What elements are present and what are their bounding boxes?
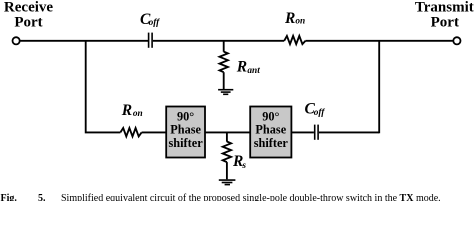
- receive port label: [4, 0, 53, 31]
- svg-text:Phase: Phase: [170, 123, 201, 137]
- svg-text:90°: 90°: [262, 110, 279, 124]
- wire: [205, 131, 250, 133]
- svg-text:Transmit: Transmit: [415, 0, 474, 15]
- svg-text:Simplified equivalent circuit: Simplified equivalent circuit of the pro…: [61, 193, 441, 201]
- label C_off (top): [140, 11, 160, 28]
- svg-text:Phase: Phase: [255, 123, 286, 137]
- capacitor C2 C_off (bottom): [315, 125, 318, 140]
- svg-text:on: on: [295, 17, 305, 27]
- wire: [319, 131, 379, 133]
- figure caption: [1, 193, 441, 204]
- resistor R_s (vertical): [223, 132, 231, 179]
- wire: [306, 40, 453, 42]
- svg-text:s: s: [241, 161, 246, 171]
- svg-text:off: off: [314, 108, 326, 118]
- wire: [153, 40, 284, 42]
- phase shifter block PS1: [166, 107, 205, 158]
- wire: [142, 131, 167, 133]
- svg-text:R: R: [284, 10, 295, 27]
- label R_on (bottom): [121, 102, 143, 119]
- svg-text:shifter: shifter: [169, 136, 204, 150]
- ground (R_ant): [218, 90, 233, 95]
- resistor R_ant (vertical): [220, 41, 228, 89]
- resistor R1 R_on (top): [284, 36, 305, 44]
- ground (R_s): [219, 180, 236, 185]
- phase shifter block PS2: [250, 107, 291, 158]
- label R_on (top): [284, 10, 305, 27]
- phase shifter PS2 text: [254, 110, 289, 151]
- wire: [291, 131, 314, 133]
- transmit port label: [415, 0, 474, 31]
- wire: [20, 40, 148, 42]
- svg-text:off: off: [149, 18, 161, 28]
- label R_s: [232, 153, 246, 171]
- svg-text:Port: Port: [431, 15, 459, 31]
- capacitor C1 C_off (top): [149, 33, 153, 48]
- svg-text:5.: 5.: [38, 193, 46, 201]
- label C_off (bottom): [305, 100, 326, 117]
- port terminal P2 (transmit): [453, 37, 460, 44]
- label R_ant: [236, 58, 260, 76]
- svg-text:Receive: Receive: [4, 0, 53, 15]
- svg-text:ant: ant: [247, 66, 260, 76]
- svg-text:on: on: [133, 109, 143, 119]
- svg-text:Port: Port: [14, 15, 42, 31]
- svg-text:90°: 90°: [177, 110, 194, 124]
- svg-text:shifter: shifter: [254, 136, 289, 150]
- svg-text:Fig.: Fig.: [1, 193, 18, 201]
- resistor R2 R_on (bottom): [120, 128, 141, 136]
- phase shifter PS1 text: [169, 110, 204, 151]
- wire (left vertical branch): [86, 41, 121, 133]
- svg-text:R: R: [236, 58, 247, 75]
- svg-text:R: R: [121, 102, 132, 119]
- port terminal P1 (receive): [13, 37, 20, 44]
- wire (right vertical branch): [378, 41, 380, 133]
